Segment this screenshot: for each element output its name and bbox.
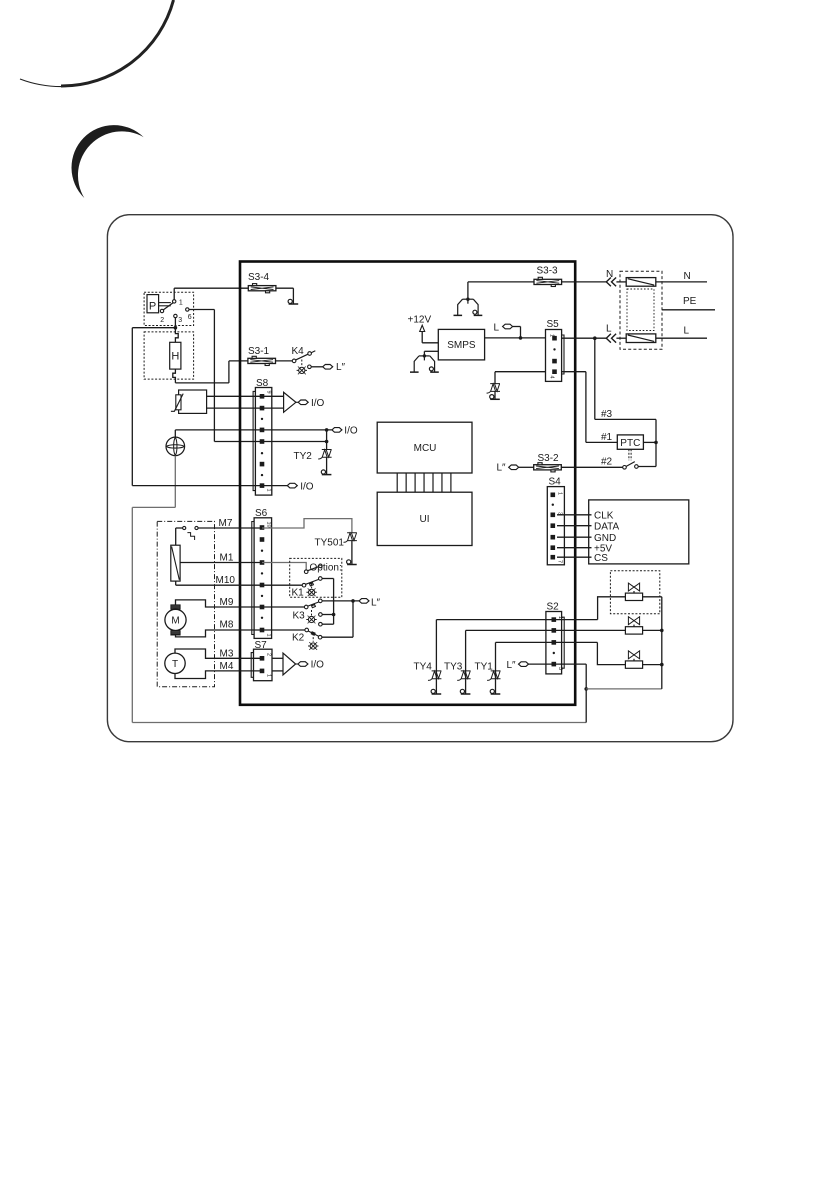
svg-text:I/O: I/O	[300, 481, 314, 492]
wire flag to S3-2	[519, 466, 534, 468]
TY2 gate terminal	[321, 470, 331, 475]
connector S2 pins	[552, 617, 557, 666]
wire down to earth pin	[292, 288, 294, 303]
svg-text:S5: S5	[547, 319, 560, 330]
svg-text:H: H	[171, 351, 179, 363]
scan artifact arc middle	[72, 125, 144, 198]
wire M3	[175, 649, 262, 658]
K3 pivot	[304, 605, 308, 609]
option switch blade	[308, 567, 319, 571]
motor M brush bottom	[171, 631, 180, 635]
capacitor/filter block	[171, 545, 180, 581]
buffer symbol (NTC lines)	[284, 392, 296, 412]
svg-text:L: L	[606, 324, 612, 335]
connector S3-2	[534, 463, 562, 472]
junction K1/K3 lower contact	[332, 613, 336, 617]
svg-text:1: 1	[266, 674, 272, 677]
wire S4 CLK	[557, 514, 592, 516]
svg-text:L: L	[494, 323, 500, 334]
display module box	[589, 500, 689, 564]
K4 indicator lamp	[297, 367, 307, 375]
wire K4 to L'' flag	[311, 366, 323, 368]
NTC sensor housing	[179, 390, 207, 413]
flag L'' (S3-2)	[509, 465, 519, 470]
wire fan top stub	[174, 430, 176, 437]
wire PTC right	[643, 441, 656, 443]
connector S3-1	[248, 356, 276, 365]
wire L flag drop	[520, 327, 522, 338]
NTC thermistor body	[176, 395, 181, 410]
svg-text:S3-1: S3-1	[248, 346, 270, 357]
K1 blade with crimp	[306, 579, 319, 586]
wire #3 drop	[594, 338, 596, 419]
earth pin terminal	[288, 299, 298, 304]
wire chevron to N suppressor	[616, 281, 626, 283]
connector S6 pins	[260, 525, 265, 632]
wire NTC bottom to S8.8	[207, 407, 284, 409]
svg-text:PE: PE	[683, 296, 697, 307]
K1 mech link dashed	[311, 583, 313, 588]
wire down to TY2	[326, 430, 328, 450]
wire M8 board side	[262, 629, 305, 631]
fan motor symbol	[166, 437, 185, 456]
svg-text:+12V: +12V	[408, 315, 432, 326]
K1 contact	[319, 577, 323, 581]
junction P.3 / left drop	[174, 326, 178, 330]
K2 pivot	[305, 628, 309, 632]
thermal protector actuator	[187, 533, 194, 540]
svg-text:S3-3: S3-3	[537, 266, 559, 277]
wire L flag stub	[513, 326, 521, 328]
wire PE out	[662, 309, 715, 311]
Option dashed box	[290, 558, 342, 597]
TY4 gate terminal	[431, 689, 441, 694]
wire TY4 drop	[435, 620, 437, 694]
wire #1 to PTC	[586, 441, 617, 443]
connector S6 mating bracket	[252, 522, 254, 635]
svg-text:P: P	[149, 301, 156, 313]
thermal protector contact b	[195, 526, 198, 529]
K2 indicator lamp	[308, 642, 318, 650]
svg-text:TY3: TY3	[444, 662, 463, 673]
svg-text:I/O: I/O	[311, 660, 325, 671]
flag I/O (S8 bottom)	[287, 483, 297, 488]
connector S3-4	[248, 284, 276, 293]
door switch blade	[626, 462, 635, 467]
svg-text:#2: #2	[601, 457, 613, 468]
triac TY1	[487, 671, 500, 680]
wire H bottom right	[175, 382, 229, 384]
svg-text:S2: S2	[547, 602, 560, 613]
wire N out	[656, 281, 707, 283]
wire K2 contact to net	[322, 636, 353, 638]
MCU-UI bus lines	[397, 473, 451, 492]
svg-text:GND: GND	[594, 533, 616, 544]
connector chevrons L	[606, 334, 616, 343]
svg-text:L: L	[684, 326, 690, 337]
wire to valve 1	[598, 597, 626, 620]
motor M circle	[165, 609, 186, 630]
svg-text:L″: L″	[507, 660, 517, 671]
motor M brush top	[171, 605, 180, 609]
wire P.1 to S3-4	[174, 287, 248, 289]
svg-text:M8: M8	[220, 620, 234, 631]
svg-text:1: 1	[266, 634, 272, 637]
svg-text:M: M	[171, 616, 179, 627]
wire junction to left drop	[132, 327, 175, 329]
mains filter inner dotted box	[627, 289, 654, 331]
triac (S5.4 snubber)	[487, 384, 500, 393]
K3 blade with crimp	[308, 602, 319, 608]
solenoid valve 2	[625, 617, 642, 634]
thermal protector contact a	[183, 526, 186, 529]
wire S4 CS	[557, 556, 592, 558]
wire valve1 to common	[643, 596, 662, 598]
triac TY3	[457, 671, 470, 680]
valve 1 dashed box (optional)	[610, 571, 659, 614]
svg-text:PTC: PTC	[620, 438, 640, 449]
svg-text:M9: M9	[220, 597, 234, 608]
wire into S3-1	[229, 360, 248, 362]
wire fan to S8.6 and I/O	[175, 429, 332, 431]
svg-text:S3-2: S3-2	[538, 453, 560, 464]
svg-text:TY1: TY1	[475, 662, 494, 673]
wire to S3-3	[468, 281, 534, 283]
wire S3-4 right	[276, 287, 294, 289]
wire #1 drop	[585, 372, 587, 443]
wire fan bottom stub	[174, 456, 176, 508]
S2 spare pin dot	[553, 652, 555, 654]
flag L'' (K4)	[323, 365, 333, 370]
wire S4 DATA	[557, 525, 592, 527]
option switch contact	[319, 564, 323, 568]
svg-text:DATA: DATA	[594, 521, 620, 532]
P contact 2	[160, 309, 163, 312]
wire P.3 branch to S8.1 and I/O	[132, 485, 287, 487]
flag I/O (fan line)	[332, 428, 342, 433]
wire S4 GND	[557, 536, 592, 538]
svg-text:M4: M4	[220, 661, 234, 672]
P actuator link line 1	[159, 302, 171, 304]
wire valve2 to common	[643, 629, 662, 631]
TY1 gate terminal	[490, 689, 500, 694]
connector S7 pins	[260, 656, 265, 673]
wire P.6 right	[189, 309, 214, 311]
junction L flag tap	[519, 336, 523, 340]
main PCB outline	[240, 262, 575, 705]
wire jog from H bottom	[173, 369, 176, 383]
SMPS box	[438, 329, 484, 360]
wire clamp to S3-3	[467, 282, 469, 299]
svg-text:I/O: I/O	[344, 425, 358, 436]
wire S5.4 right	[562, 371, 586, 373]
connector S8 body	[255, 388, 271, 496]
svg-text:1: 1	[557, 616, 563, 619]
mains filter dashed box	[620, 271, 662, 349]
svg-text:7: 7	[556, 560, 562, 563]
wire S7.1 to buffer	[272, 670, 283, 672]
wire M9 board side	[262, 606, 304, 608]
junction K3/K2 net	[351, 599, 355, 603]
flag L'' (K3)	[359, 599, 369, 604]
wire valve return	[586, 688, 662, 690]
svg-text:#3: #3	[601, 409, 613, 420]
wire stub K3 low contact	[322, 623, 333, 625]
wire TY to terminal	[494, 391, 496, 399]
enclosure frame	[107, 215, 733, 742]
K4 blade	[296, 354, 308, 360]
svg-text:N: N	[606, 269, 613, 280]
S4 spare pin dot	[552, 504, 554, 506]
wire SMPS to chassis clamp	[424, 350, 438, 352]
svg-text:M1: M1	[220, 553, 234, 564]
wire jog into H top	[175, 328, 178, 343]
S8 spare pin dots	[261, 418, 263, 477]
svg-text:TY2: TY2	[294, 451, 313, 462]
wire bottom return loop	[132, 722, 586, 724]
suppressor N	[626, 278, 656, 287]
wire clamp stem	[423, 351, 425, 356]
svg-text:S8: S8	[256, 378, 269, 389]
svg-text:MCU: MCU	[414, 443, 437, 454]
wire S5.1 to L chevron	[562, 337, 607, 339]
solenoid valve 1	[625, 583, 642, 600]
P contact 6	[186, 308, 189, 311]
wire K1 down to K3 contacts	[333, 579, 335, 625]
wire NTC top to S8.9	[207, 395, 284, 397]
junction TY2 drop / P.6 line	[325, 440, 329, 444]
K4 upper contact stub	[311, 351, 315, 353]
svg-text:S6: S6	[255, 508, 268, 519]
P contact 1	[173, 300, 176, 303]
wire #3 across	[595, 418, 656, 420]
wire +12V stub	[421, 332, 423, 343]
motor T circle	[165, 653, 185, 673]
P contact 3	[174, 314, 177, 317]
svg-text:L″: L″	[497, 463, 507, 474]
wire L'' through S2.5	[529, 663, 587, 665]
flag L (SMPS out)	[503, 324, 513, 329]
TY3 gate terminal	[460, 689, 470, 694]
connector S3-3	[534, 277, 562, 286]
wire to valve 3	[597, 642, 625, 664]
wire M4	[175, 671, 262, 679]
svg-text:K4: K4	[292, 346, 305, 357]
junction L'' / valve return	[584, 687, 588, 691]
wire to door switch contact	[638, 466, 656, 468]
wire M7 board side (gray)	[262, 519, 352, 533]
connector S8 pins	[260, 394, 265, 488]
wire S4 +5V	[557, 547, 592, 549]
K1 pivot	[302, 583, 306, 587]
junction fan line / TY2 drop	[325, 428, 329, 432]
pressure switch P body	[147, 295, 159, 313]
connector S4 pins	[551, 493, 556, 560]
wire S7.2 to buffer	[272, 657, 283, 659]
svg-text:M3: M3	[220, 649, 234, 660]
svg-text:CLK: CLK	[594, 510, 614, 521]
S6 spare pin dots	[261, 550, 263, 620]
flag I/O (NTC buffer)	[298, 400, 308, 405]
heater H body	[170, 342, 181, 369]
wire buffer out	[296, 663, 298, 665]
wire valve3 to common	[643, 664, 662, 666]
wire buffer out	[296, 401, 298, 403]
wire SMPS to +12V	[422, 342, 438, 344]
TY501 gate terminal	[347, 560, 357, 565]
K1 indicator lamp	[306, 588, 316, 596]
svg-text:S4: S4	[549, 477, 562, 488]
wire TY501 to terminal	[351, 541, 353, 565]
wire M10 to K1	[176, 584, 303, 586]
connector S4 body	[547, 487, 564, 565]
svg-text:3: 3	[178, 317, 182, 324]
connector S7 body	[254, 649, 273, 681]
wire up to S3-1	[228, 361, 230, 383]
svg-text:N: N	[684, 271, 691, 282]
svg-text:2: 2	[266, 653, 272, 656]
P switch blade contact2-contact1	[163, 303, 173, 310]
solenoid valve 3	[625, 651, 642, 668]
connector S5 body	[546, 330, 562, 382]
pressure switch P dashed box	[144, 292, 194, 325]
svg-text:L″: L″	[336, 362, 346, 373]
svg-text:SMPS: SMPS	[447, 340, 476, 351]
wire S3-3 to N chevron	[562, 281, 607, 283]
svg-text:T: T	[172, 659, 178, 670]
UI box	[377, 492, 472, 545]
heater H dashed box	[144, 332, 194, 379]
svg-text:M7: M7	[219, 518, 233, 529]
wire M1 to S6	[180, 562, 262, 564]
wire chevron to L suppressor	[616, 337, 626, 339]
connector S5 pins	[552, 336, 557, 374]
K3 mech link dashed	[311, 610, 313, 616]
svg-text:6: 6	[188, 314, 192, 321]
S5 spare pin dot	[553, 348, 555, 350]
wire down to K2 contact	[352, 601, 354, 637]
buffer symbol (S7)	[283, 653, 296, 675]
door switch contact	[635, 465, 639, 469]
svg-text:L″: L″	[371, 598, 381, 609]
option switch pivot	[304, 570, 308, 574]
svg-text:#1: #1	[601, 432, 613, 443]
triac TY2	[318, 450, 331, 459]
connector S8 mating bracket	[253, 391, 255, 490]
svg-text:5: 5	[557, 667, 563, 670]
svg-text:S3-4: S3-4	[248, 272, 270, 283]
K4 upper contact	[308, 352, 312, 356]
svg-text:9: 9	[266, 391, 272, 394]
P actuator link line 2	[159, 305, 171, 307]
chassis earth clamp (SMPS)	[410, 356, 439, 372]
NTC thermistor strike line	[171, 394, 183, 412]
svg-text:4: 4	[549, 376, 555, 379]
flag I/O (S7 buffer)	[298, 662, 308, 667]
wire M1 board side (gray)	[262, 563, 306, 570]
wire left drop to bottom loop	[131, 507, 133, 722]
svg-text:TY501: TY501	[315, 538, 345, 549]
wire P.6 down	[213, 310, 215, 442]
svg-text:K3: K3	[293, 611, 306, 622]
svg-text:10: 10	[266, 522, 272, 528]
connector S2 body	[546, 612, 562, 674]
wire M7 to S6.10	[198, 527, 262, 529]
svg-text:CS: CS	[594, 553, 608, 564]
wire SMPS out to S5.1	[485, 337, 546, 339]
connector S7 mating bracket	[251, 653, 253, 678]
svg-text:M10: M10	[216, 575, 236, 586]
+12V arrow	[420, 325, 425, 331]
wire TY1 drop	[495, 642, 497, 693]
svg-text:UI: UI	[420, 514, 430, 525]
K2 contact	[318, 635, 322, 639]
wire left drop to I/O line	[131, 328, 133, 486]
svg-text:K2: K2	[292, 633, 305, 644]
K4 pivot contact	[292, 359, 296, 363]
wire S3-1 to K4	[276, 360, 293, 362]
svg-text:TY4: TY4	[414, 662, 433, 673]
triac TY501	[344, 533, 357, 542]
triac TY4	[428, 671, 441, 680]
PTC box	[617, 435, 643, 449]
wire L'' down to loop	[585, 664, 587, 722]
K3 low contact	[319, 622, 323, 626]
wire stub K3 mid contact	[322, 614, 333, 616]
svg-text:1: 1	[549, 334, 555, 337]
K3 upper contact	[319, 599, 323, 603]
wire L out	[656, 337, 707, 339]
suppressor L	[626, 334, 656, 343]
K2 mech link dashed	[312, 634, 314, 642]
wire P.3 down	[174, 318, 176, 328]
PTC mech link dashed	[628, 449, 630, 460]
door switch pivot	[623, 466, 627, 470]
svg-text:I/O: I/O	[311, 398, 325, 409]
connector S6 body	[254, 518, 272, 639]
wire P.6 to S8 pin / TY2	[214, 441, 326, 443]
svg-text:1: 1	[179, 300, 183, 307]
junction valve2 common	[660, 629, 664, 633]
wire K1 contact right	[322, 578, 334, 580]
wire to capacitor top	[175, 528, 177, 545]
connector S5 mating bracket	[562, 335, 564, 374]
connector S2 mating bracket	[562, 617, 565, 668]
wire M7 left segment	[176, 527, 183, 529]
svg-text:1: 1	[266, 489, 272, 492]
svg-text:Option:: Option:	[310, 563, 342, 574]
K4 lower contact	[308, 365, 312, 369]
wire TY3 drop	[465, 630, 467, 693]
K3 indicator lamp	[306, 616, 316, 624]
wire TY2 to terminal	[326, 457, 328, 474]
K3 mid contact	[319, 613, 323, 617]
svg-text:S7: S7	[255, 640, 268, 651]
flag L'' (S2)	[519, 662, 529, 667]
chassis earth clamp (mains N)	[454, 299, 483, 315]
connector chevrons N	[606, 278, 616, 287]
motor group dashed box	[157, 521, 214, 686]
K2 blade with crimp	[308, 631, 318, 636]
wire fan to left drop	[132, 506, 175, 508]
K4 mech link dashed	[301, 360, 303, 367]
wire P.1 up	[173, 288, 175, 300]
junction valve3 common	[660, 663, 664, 667]
junction PTC / #3	[654, 441, 658, 445]
wire #3 down to door switch	[655, 419, 657, 466]
wire S2.1 / TY4 net	[436, 619, 597, 621]
svg-text:1: 1	[556, 492, 562, 495]
